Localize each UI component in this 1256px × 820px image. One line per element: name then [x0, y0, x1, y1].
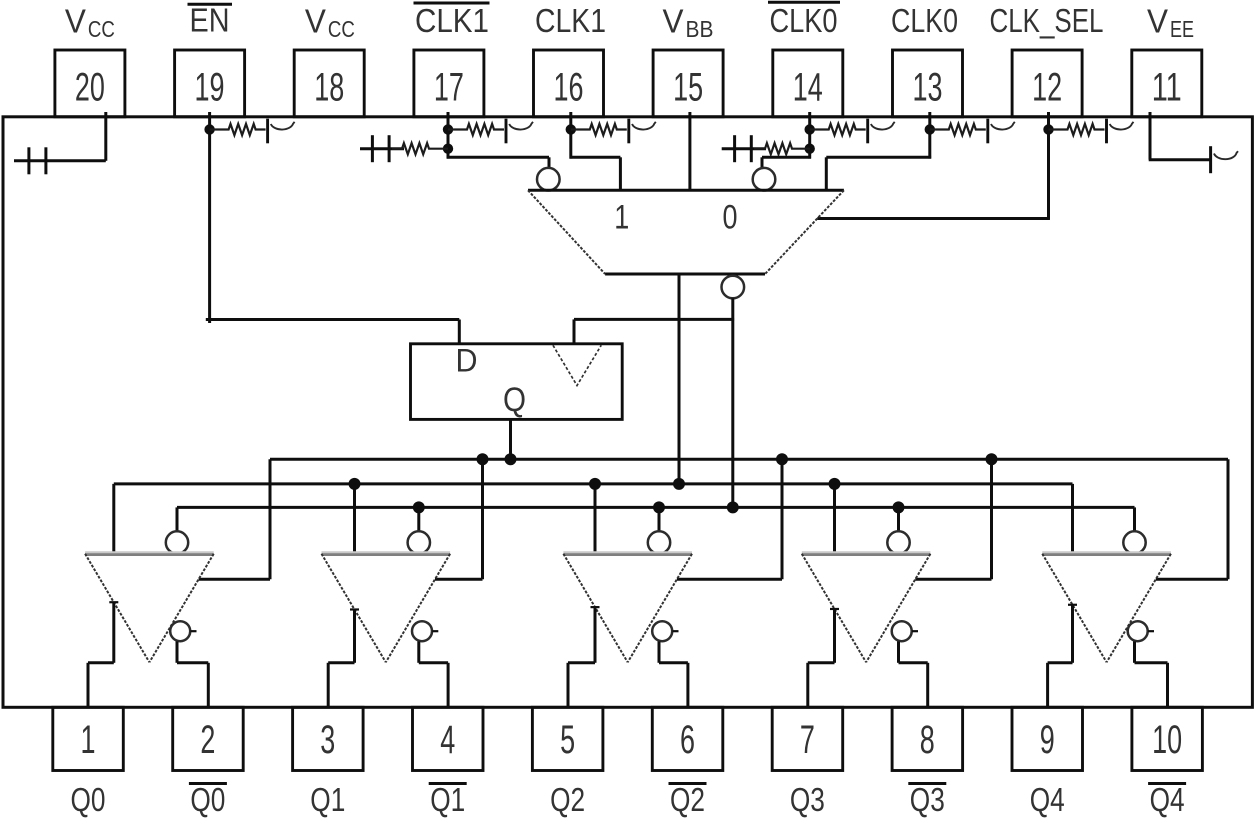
pin 11 box [1132, 50, 1202, 117]
mux U2 bottom edge [605, 273, 765, 276]
svg-text:EN: EN [190, 2, 230, 39]
wire buffer 3 true output to pin 5 [568, 607, 600, 707]
wire latch Q output to bus A [509, 419, 512, 459]
svg-text:CLK0: CLK0 [891, 2, 958, 39]
capacitor C2 with resistor R3 (CLK1b bias) [360, 135, 448, 162]
wire pin 12 CLK_SEL vertical [1047, 112, 1050, 220]
wire CLK1b to mux inverted input 1 [447, 157, 549, 168]
wire buffer 2 true output to pin 3 [328, 609, 359, 707]
wire buffer 5 inverted output to pin 10 [1135, 642, 1168, 708]
svg-text:CLK_SEL: CLK_SEL [990, 2, 1104, 39]
bus A (enable net) [270, 458, 1228, 461]
arc to VEE at R5 [871, 122, 895, 130]
pin 5 box [532, 707, 603, 770]
mux U2 right slant edge [765, 190, 844, 274]
svg-text:16: 16 [554, 66, 584, 110]
svg-text:17: 17 [434, 66, 464, 110]
pin 11 label VEE [1147, 3, 1194, 43]
junction CLK1b / C2 [443, 144, 453, 154]
wire bus A enable tap to buffer 5 [1156, 459, 1228, 579]
svg-text:7: 7 [800, 718, 815, 762]
mux output bubble (inverted) [722, 276, 745, 299]
arc to VEE at R8 [1110, 122, 1134, 130]
pin 12 label CLK_SEL [990, 2, 1104, 39]
pin 7 label Q3 [790, 781, 825, 818]
mux input bubble (CLK1b) [537, 168, 560, 191]
svg-text:5: 5 [560, 718, 575, 762]
pin 13 label CLK0 [891, 2, 958, 39]
svg-text:Q3: Q3 [910, 781, 945, 818]
pin 14 label CLK0 (inverted) [768, 2, 840, 39]
wire bus B input to buffer 3 [589, 478, 601, 554]
wire bus A enable tap to buffer 4 [915, 453, 997, 579]
junction CLK1 / R4 [566, 124, 576, 134]
svg-text:Q3: Q3 [790, 781, 825, 818]
wire bus A enable tap to buffer 3 [677, 453, 788, 579]
junction CLK0 / R7 [925, 124, 935, 134]
pin 3 box [293, 707, 364, 770]
latch clock triangle [553, 345, 601, 385]
svg-text:Q2: Q2 [550, 781, 585, 818]
pin 10 box [1132, 707, 1203, 770]
mux label input 0 [723, 199, 738, 237]
wire pin 11 VEE [1149, 112, 1211, 160]
wire CLK0b to mux inverted input 0 [762, 157, 811, 168]
svg-text:Q: Q [503, 381, 526, 419]
termination bar R2 [505, 119, 508, 144]
pin 8 label Q3 (inverted) [908, 781, 946, 818]
pin 6 label Q2 (inverted) [669, 781, 707, 818]
buffer 3 output bubble [652, 621, 678, 641]
buffer 2 input bubble [408, 531, 430, 553]
buffer 5 input bubble [1123, 531, 1145, 553]
svg-text:9: 9 [1040, 718, 1055, 762]
capacitor C1 (VCC bypass) [29, 147, 46, 174]
wire EN to latch D input [206, 320, 459, 344]
resistor R7 (CLK0 termination) [930, 124, 986, 135]
mux U2 left slant edge [528, 190, 605, 274]
mux U2 top edge [528, 189, 844, 192]
pin 15 box [653, 50, 723, 117]
wire pin 20 to capacitor [14, 112, 106, 161]
svg-text:Q1: Q1 [430, 781, 465, 818]
svg-text:15: 15 [673, 66, 703, 110]
termination bar R8 [1105, 119, 1108, 144]
pin 9 box [1012, 707, 1083, 770]
svg-text:CLK1: CLK1 [415, 2, 489, 39]
bus C (inverted clock net) [177, 506, 1135, 509]
output buffer U4 (triangle) [85, 552, 214, 662]
mux inverted output wire to bus C [731, 298, 734, 507]
svg-text:0: 0 [723, 199, 738, 237]
latch U3 body [411, 344, 623, 420]
arc to VEE at R7 [991, 122, 1015, 130]
termination bar R1 [266, 119, 269, 144]
wire buffer 4 inverted output to pin 8 [899, 642, 928, 708]
wire bus C input to buffer 2 [413, 501, 425, 531]
termination bar R5 [866, 119, 869, 144]
svg-text:CC: CC [328, 16, 355, 42]
wire CLK1 to mux input 1 [570, 157, 621, 190]
svg-text:13: 13 [912, 66, 942, 110]
pin 10 label Q4 (inverted) [1148, 781, 1186, 818]
termination bar R7 [986, 119, 989, 144]
pin 12 box [1012, 50, 1082, 117]
pin 19 label EN (active low) [188, 2, 233, 39]
wire pin 14 CLK0b vertical [808, 112, 811, 159]
buffer 2 output bubble [412, 621, 438, 641]
svg-text:V: V [65, 3, 86, 40]
svg-text:CLK1: CLK1 [535, 2, 606, 39]
junction EN / R1 [204, 124, 214, 134]
termination bar R4 [627, 119, 630, 144]
pin 7 box [772, 707, 843, 770]
wire bus C input to buffer 5 [1133, 507, 1136, 531]
wire bus A enable tap to buffer 1 [199, 459, 270, 579]
mux label input 1 [614, 199, 629, 237]
wire CLK_SEL to mux select [817, 217, 1050, 220]
pin 1 label Q0 [71, 781, 106, 818]
pin 6 box [652, 707, 723, 770]
pin 15 label VBB [663, 3, 714, 43]
svg-text:20: 20 [75, 66, 105, 110]
wire buffer 4 true output to pin 7 [808, 609, 839, 707]
buffer 4 output bubble [892, 621, 918, 641]
svg-text:Q4: Q4 [1150, 781, 1185, 818]
svg-text:18: 18 [314, 66, 344, 110]
svg-text:V: V [1147, 3, 1168, 40]
junction CLK_SEL / R8 [1043, 124, 1053, 134]
junction bus A / latch Q [505, 453, 517, 465]
resistor R5 (CLK0b termination) [810, 124, 866, 135]
wire buffer 1 inverted output to pin 2 [177, 642, 208, 708]
pin 2 label Q0 (inverted) [189, 781, 227, 818]
wire mux inverted output to latch clock [574, 319, 734, 343]
buffer 4 input bubble [887, 531, 909, 553]
wire buffer 3 inverted output to pin 6 [659, 642, 688, 708]
junction bus C / mux inv out [727, 501, 739, 513]
output buffer U7 (triangle) [802, 552, 931, 662]
mux true output wire to bus B [678, 274, 681, 484]
svg-text:CLK0: CLK0 [770, 2, 838, 39]
svg-text:14: 14 [793, 66, 823, 110]
svg-text:1: 1 [614, 199, 629, 237]
arc to VEE at R2 [509, 122, 533, 130]
junction bus B / mux true out [673, 478, 685, 490]
svg-text:Q1: Q1 [310, 781, 345, 818]
svg-text:11: 11 [1152, 66, 1182, 110]
wire bus C input to buffer 4 [893, 501, 905, 531]
pin 20 box [55, 50, 125, 117]
resistor R8 (CLK_SEL pulldown) [1049, 124, 1105, 135]
wire bus B input to buffer 1 [112, 484, 115, 554]
pin 4 box [413, 707, 484, 770]
capacitor plate at VEE [1209, 146, 1212, 173]
svg-text:Q0: Q0 [190, 781, 225, 818]
wire buffer 1 true output to pin 1 [88, 602, 118, 707]
pin 17 box [414, 50, 484, 117]
pin 14 box [773, 50, 843, 117]
output buffer U8 (triangle) [1042, 552, 1171, 662]
junction CLK1b / R2 [443, 124, 453, 134]
svg-text:BB: BB [686, 16, 714, 42]
pin 16 box [534, 50, 604, 117]
output buffer U6 (triangle) [563, 552, 692, 662]
wire pin 13 CLK0 vertical [928, 112, 931, 159]
capacitor C3 with resistor R6 (CLK0b bias) [722, 135, 810, 162]
wire bus B input to buffer 2 [349, 478, 361, 554]
svg-text:V: V [305, 3, 326, 40]
svg-text:2: 2 [200, 718, 215, 762]
wire bus B input to buffer 5 [1071, 484, 1074, 554]
pin 18 box [294, 50, 364, 117]
buffer 1 output bubble [170, 621, 196, 641]
svg-text:Q4: Q4 [1030, 781, 1065, 818]
latch label Q [503, 381, 526, 419]
svg-text:Q2: Q2 [670, 781, 705, 818]
svg-text:1: 1 [81, 718, 96, 762]
svg-text:3: 3 [320, 718, 335, 762]
svg-text:D: D [456, 343, 478, 379]
wire bus A enable tap to buffer 2 [435, 453, 489, 579]
buffer 3 input bubble [648, 531, 670, 553]
pin 3 label Q1 [310, 781, 345, 818]
pin 19 box [175, 50, 245, 117]
pin 16 label CLK1 [535, 2, 606, 39]
svg-text:8: 8 [920, 718, 935, 762]
wire bus B input to buffer 4 [829, 478, 841, 554]
junction CLK0b / R5 [805, 124, 815, 134]
pin 17 label CLK1 (inverted) [414, 2, 490, 39]
svg-text:10: 10 [1152, 718, 1182, 762]
junction CLK0b / C3 [805, 144, 815, 154]
arc to VEE at R4 [632, 122, 656, 130]
wire buffer 5 true output to pin 9 [1048, 605, 1077, 708]
wire pin 17 CLK1b vertical [447, 112, 450, 159]
svg-text:4: 4 [440, 718, 455, 762]
bus B (true clock net) [114, 482, 1073, 485]
svg-text:Q0: Q0 [71, 781, 106, 818]
pin 18 label VCC [305, 3, 355, 43]
pin 5 label Q2 [550, 781, 585, 818]
wire CLK0 to mux input 0 [826, 157, 931, 190]
resistor R2 (CLK1b termination) [448, 124, 504, 135]
pin 13 box [893, 50, 963, 117]
svg-text:12: 12 [1032, 66, 1062, 110]
wire bus C input to buffer 1 [176, 507, 179, 531]
svg-text:6: 6 [680, 718, 695, 762]
arc at VEE plate [1214, 151, 1238, 159]
wire pin 15 VBB to mux [688, 112, 691, 190]
mux input bubble (CLK0b) [753, 168, 776, 191]
wire bus C input to buffer 3 [653, 501, 665, 531]
resistor R1 (EN pulldown) [210, 124, 266, 135]
svg-text:19: 19 [195, 66, 225, 110]
pin 8 box [892, 707, 963, 770]
output buffer U5 (triangle) [322, 552, 451, 662]
buffer 1 input bubble [166, 531, 188, 553]
arc to VEE at R1 [271, 122, 295, 130]
svg-text:V: V [663, 3, 684, 40]
pin 2 box [173, 707, 244, 770]
pin 1 box [53, 707, 124, 770]
latch label D [456, 343, 478, 379]
resistor R4 (CLK1 termination) [571, 124, 627, 135]
svg-text:EE: EE [1170, 16, 1194, 42]
wire pin 16 CLK1 vertical [569, 112, 572, 159]
pin 4 label Q1 (inverted) [429, 781, 467, 818]
pin 9 label Q4 [1030, 781, 1065, 818]
wire pin 19 EN vertical [208, 112, 211, 323]
pin 20 label VCC [65, 3, 115, 43]
buffer 5 output bubble [1128, 621, 1154, 641]
svg-text:CC: CC [88, 16, 115, 42]
chip outline U1 (20-lead package boundary) [3, 117, 1252, 708]
wire buffer 2 inverted output to pin 4 [419, 642, 448, 708]
